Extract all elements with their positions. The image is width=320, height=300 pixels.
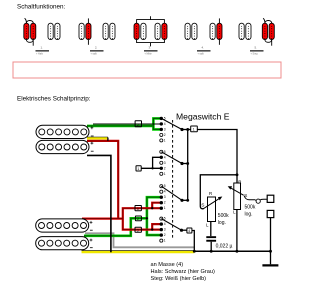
switch section 4 lever <box>161 219 181 231</box>
svg-text:2: 2 <box>164 233 166 237</box>
pickup Hals coil 3 terminals <box>90 221 93 224</box>
wire: jack sleeve to ground <box>270 218 272 265</box>
wire: neck green hot coil4+ to switch green rail <box>84 197 161 236</box>
position 3 both inner coils in parallel (wire box) <box>134 16 167 46</box>
svg-text:3: 3 <box>164 161 166 165</box>
Megaswitch mechanical link (dashed) <box>172 120 174 238</box>
position 1 switch indicator label <box>36 46 50 56</box>
svg-text:500k: 500k <box>218 213 229 219</box>
wire: output rail connecting poles 1-3 <box>187 130 189 201</box>
wire: section 3 pole to rail <box>182 199 188 201</box>
svg-text:log.: log. <box>218 220 226 226</box>
svg-text:R: R <box>209 191 212 196</box>
svg-text:500k: 500k <box>245 205 256 211</box>
tag box 1 on section 1 output <box>191 126 198 132</box>
wire: capacitor to ground bus <box>210 242 212 252</box>
svg-text:5.: 5. <box>255 46 258 50</box>
position 5 switch indicator label <box>250 46 264 56</box>
position 4 neck humbucker inactive <box>185 23 197 39</box>
svg-text:1: 1 <box>164 239 166 243</box>
wire: volume pot bottom to ground bus <box>236 210 238 252</box>
svg-text:3: 3 <box>137 229 139 233</box>
switch section 3 contacts <box>160 184 166 210</box>
position 5 neck humbucker inactive <box>239 23 251 39</box>
wire: neck gray ground (Hals schwarz) coil3- to ground node <box>85 233 194 247</box>
switch section 2 pole <box>180 162 183 165</box>
svg-text:0,022 µ: 0,022 µ <box>216 244 233 250</box>
wire: section 2 pole to rail <box>182 163 188 165</box>
tag box 2 dead-end feeding section 2 contacts <box>136 166 141 171</box>
svg-text:3: 3 <box>137 207 139 211</box>
svg-text:+ Mitte: + Mitte <box>145 53 153 56</box>
junction green feed to rail <box>146 217 148 219</box>
svg-text:4: 4 <box>188 229 190 233</box>
pickup Steg (bridge humbucker) coil 1 <box>36 125 89 138</box>
pickup Steg coil 1 terminals <box>91 126 94 129</box>
junction volume pot ground <box>235 250 238 253</box>
svg-text:an Masse (4): an Masse (4) <box>151 262 184 268</box>
svg-text:2: 2 <box>164 133 166 137</box>
junction ground bus at yellow/gray <box>193 250 196 253</box>
wire: bridge green hot coil1+ to switch section 1 bracket <box>87 118 161 129</box>
wire: bridge yellow series link coil1- <box>87 136 108 138</box>
position 1 bridge humbucker inactive (white) <box>48 23 60 39</box>
svg-text:Hals: Schwarz (hier Grau): Hals: Schwarz (hier Grau) <box>151 269 215 275</box>
potentiometer tone wiper arrow <box>203 198 220 209</box>
ground symbol <box>262 264 278 266</box>
tag box 4 an Masse <box>187 228 192 233</box>
svg-text:Megaswitch E: Megaswitch E <box>176 111 230 121</box>
position 2 switch indicator label <box>90 46 104 56</box>
wire: bridge yellow ground bus (Steg weiss) to ground node <box>82 250 195 252</box>
wire: bridge black ground coil2- down to bus <box>87 155 111 252</box>
wire: series junction drop yellow to red <box>107 138 109 141</box>
svg-text:3.: 3. <box>149 46 152 50</box>
svg-text:L: L <box>233 210 236 215</box>
switch section 1 pole <box>180 128 183 131</box>
junction section 2 bracket <box>151 167 153 169</box>
switch section 4 pole <box>180 229 183 232</box>
junction rail top <box>186 128 189 131</box>
svg-text:4: 4 <box>164 222 166 226</box>
wire: section 1 pole to junction and tag <box>182 129 191 131</box>
svg-text:4: 4 <box>164 155 166 159</box>
svg-text:2: 2 <box>137 217 139 221</box>
junction capacitor ground <box>210 250 213 253</box>
switch section 1 lever <box>161 118 182 129</box>
wire: section 4 pole to ground tag <box>182 229 187 231</box>
position 3 switch indicator label <box>144 46 158 56</box>
svg-text:S: S <box>201 203 204 209</box>
junction rail bottom <box>186 199 189 202</box>
tag box on bridge hot wire pair <box>135 121 141 127</box>
junction red bracket section 3 <box>151 207 153 209</box>
svg-text:3: 3 <box>164 127 166 131</box>
junction jack ground on bus <box>269 250 272 253</box>
pickup Hals (neck humbucker) coil 3 <box>36 219 89 232</box>
pickup Hals coil 4 terminals <box>90 239 93 242</box>
position 4 switch indicator label <box>197 46 211 56</box>
svg-text:Elektrisches Schaltprinzip:: Elektrisches Schaltprinzip: <box>17 96 91 103</box>
svg-text:+ split: + split <box>198 53 205 56</box>
svg-text:1: 1 <box>164 172 166 176</box>
tag box on red net to section 4 <box>135 227 141 232</box>
svg-text:+ Steg: + Steg <box>251 53 259 56</box>
svg-text:4.: 4. <box>202 46 205 50</box>
pickup Hals (neck humbucker) coil 4 <box>36 237 89 250</box>
svg-text:1: 1 <box>164 206 166 210</box>
wire: black companion to section 1 contact 4 <box>93 123 161 125</box>
svg-text:4: 4 <box>164 190 166 194</box>
position 2 bridge humbucker inactive <box>103 23 115 39</box>
svg-text:2: 2 <box>164 201 166 205</box>
switch section 3 pole <box>180 199 183 202</box>
svg-text:1.: 1. <box>41 46 44 50</box>
svg-text:+ split: + split <box>91 53 98 56</box>
switch section 2 contacts <box>160 150 166 176</box>
potentiometer volume 500k body <box>234 183 241 210</box>
svg-text:3: 3 <box>164 228 166 232</box>
wire: ground tag to ground bus <box>192 231 194 252</box>
pickup Steg (bridge humbucker) coil 2 <box>36 140 89 153</box>
potentiometer volume wiper arrow <box>231 188 244 195</box>
junction red bracket section 4 <box>151 228 153 230</box>
svg-text:4: 4 <box>164 122 166 126</box>
svg-text:Schaltfunktionen:: Schaltfunktionen: <box>17 4 66 11</box>
svg-text:2: 2 <box>164 166 166 170</box>
position 2 neck humbucker split (right coil red) <box>79 18 91 44</box>
tag box on neck green feed <box>135 216 141 221</box>
position 5 bridge humbucker active (both coils red) <box>262 18 274 45</box>
red frame rectangle <box>13 62 281 78</box>
position 4 bridge humbucker split (right coil red) <box>210 18 222 44</box>
switch section 2 lever <box>161 152 182 164</box>
svg-text:L: L <box>206 222 209 227</box>
wire: tone pot bottom to capacitor <box>210 222 212 237</box>
switch section 3 lever <box>161 186 182 200</box>
svg-text:1: 1 <box>164 138 166 142</box>
svg-text:2.: 2. <box>95 46 98 50</box>
output jack sleeve terminal <box>267 210 274 217</box>
svg-text:Steg: Weiß (hier Gelb): Steg: Weiß (hier Gelb) <box>151 276 207 282</box>
wire: tag 2 to section 2 contacts 4 and 2 <box>141 157 160 168</box>
junction volume pot feed split <box>236 173 239 176</box>
pickup Steg coil 2 terminals <box>91 142 94 145</box>
svg-text:3: 3 <box>164 195 166 199</box>
wire: switch output to volume pot <box>197 130 237 184</box>
capacitor C1 0.022u plates <box>206 236 216 238</box>
switch section 1 contacts <box>160 116 166 142</box>
tag box on red net to section 3 <box>135 206 141 212</box>
svg-text:R: R <box>238 180 241 185</box>
wire: volume wiper to jack with strain loop <box>244 196 256 201</box>
position 1 neck humbucker active (both coils red) <box>24 18 36 45</box>
switch section 4 contacts <box>160 217 166 243</box>
potentiometer tone 500k body <box>208 197 216 222</box>
output jack tip terminal <box>267 195 274 202</box>
svg-text:+ Hals: + Hals <box>36 53 44 56</box>
wire: red series-link net to switch sections 3 and 4 <box>82 141 161 230</box>
junction rail section 2 <box>186 162 189 165</box>
svg-text:1: 1 <box>137 167 139 171</box>
wire: feed to tone pot wiper <box>200 175 237 209</box>
svg-text:1: 1 <box>193 128 195 132</box>
svg-text:2: 2 <box>137 123 139 127</box>
svg-text:log.: log. <box>245 212 253 218</box>
wire: black ground bus to jack <box>194 250 270 252</box>
